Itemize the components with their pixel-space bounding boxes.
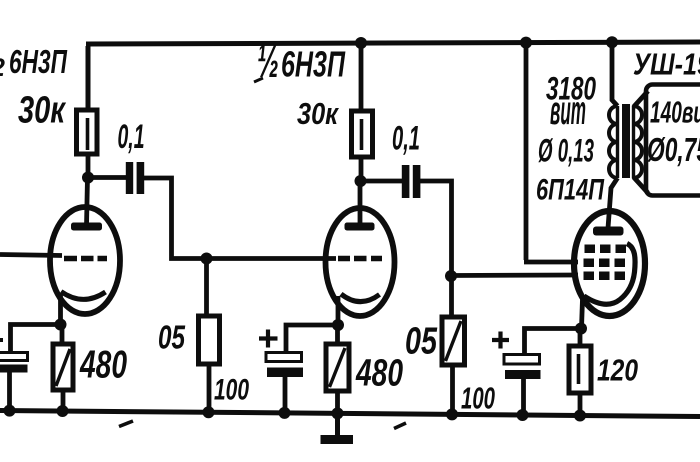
node [446,408,458,420]
label box secondary winding [646,85,700,196]
node cathode V1 [55,319,67,331]
node [332,407,344,419]
wire top B+ rail [86,42,700,44]
resistor R 05 #2 [442,317,465,365]
node junction rail / screen-grid feed [520,37,532,49]
stray tick mark 1 [119,421,133,427]
transformer T1 secondary winding [634,106,643,178]
capacitor C 0,1 #2 [402,165,410,198]
grid dots V3 row g3 [585,245,596,254]
capacitor electrolytic #1 (clipped at left edge) [0,353,28,361]
svg-text:30к: 30к [297,96,339,131]
node [517,409,529,421]
wire rail to R 30k #2 [359,44,364,112]
svg-text:УШ-19: УШ-19 [633,47,700,82]
transformer T1 primary winding [609,106,618,178]
wire cathode node to bypass cap #3 [525,329,582,356]
wire cathode node to bypass cap #1 [11,325,61,354]
grid V1 (dashes) [64,256,107,262]
resistor R 120 [569,346,591,393]
wire cap #2 to ground rail [283,377,288,413]
ground symbol [335,413,340,435]
cathode V1 [61,292,106,300]
svg-text:30к: 30к [18,90,66,132]
node control grid feed [445,270,457,282]
wire leads R480#2 [335,325,340,413]
wire anode lead V2 [358,181,363,226]
pentode V3 (6P14P) envelope [574,211,645,316]
wire node to R 05 #2 [449,276,454,317]
node plate of tube V1 [82,172,94,184]
resistor R 480 #1 [53,344,73,390]
triode V1 (1/2 6N3P) envelope [50,207,120,314]
node junction rail / transformer primary [606,36,618,48]
wire cathode node to bypass cap #2 [286,325,338,353]
transformer T1 core [622,104,630,178]
svg-text:6Н3П: 6Н3П [9,43,68,80]
wire anode lead V1 [87,177,88,226]
wire ground rail (bottom) [0,411,700,417]
node [574,410,586,422]
wire node to R 05 #1 [204,259,209,317]
grid dots V3 row g1 [584,272,595,281]
wire cathode lead V2 [336,296,341,325]
wire leads R120 [578,329,583,416]
svg-text:05: 05 [405,321,438,363]
suppressor-to-cathode curve V3 [584,244,635,305]
wire cap #3 to ground rail [521,379,526,415]
svg-text:Ø 0,13: Ø 0,13 [538,133,594,169]
resistor R 480 #2 [326,344,349,391]
svg-text:2: 2 [0,54,5,82]
grid V2 (dashes) [338,256,382,262]
wire node to C 0,1 #1 [88,175,126,180]
resistor R 30k #1 [77,110,98,154]
node on ground rail [203,406,215,418]
node cathode V2 [332,319,344,331]
svg-text:140вит: 140вит [650,95,700,130]
wire C0,1#1 to grid of V2 [144,178,336,259]
wire node to C 0,1 #2 [361,179,403,184]
svg-text:100: 100 [461,381,495,416]
wire left drop from rail to R 30k #1 [86,46,91,112]
anode V3 [593,227,624,236]
triode V2 (1/2 6N3P) envelope [326,208,395,316]
stray tick mark 2 [394,423,406,429]
node [4,405,16,417]
wire leads R480#1 [62,326,63,411]
wire screen grid feed from rail [524,44,578,262]
wire R30k#1 to plate node [86,154,91,177]
wire primary to anode V3 [608,178,618,228]
node [57,405,69,417]
capacitor C 0,1 #1 [126,162,133,194]
transformer T1 primary lead [612,44,618,106]
svg-text:6П14П: 6П14П [536,174,605,207]
svg-text:05: 05 [158,319,185,356]
node grid V2 / grid resistor [201,253,213,265]
svg-text:вит: вит [550,87,586,133]
wire secondary leads to label box [634,91,649,193]
svg-text:½: ½ [257,35,279,87]
capacitor electrolytic #3 [504,355,540,365]
wire cathode lead V3 [582,299,583,328]
wire R05#1 to ground rail [207,364,212,412]
svg-text:Ø0,75: Ø0,75 [647,131,700,168]
anode V2 [345,223,375,231]
wire cathode lead V1 [58,293,63,325]
wire node to control grid V3 [451,273,578,278]
svg-text:120: 120 [597,353,638,388]
anode V1 [71,223,102,231]
wire R05#2 to ground rail [450,365,455,414]
node [279,407,291,419]
svg-text:480: 480 [79,344,127,387]
svg-text:480: 480 [355,353,403,395]
stray tick below 1/2 [254,78,263,82]
node cathode V3 [575,323,587,335]
capacitor electrolytic #2 [266,353,302,362]
node junction rail / stage2 plate feed [355,37,367,49]
resistor R 30k #2 [352,111,373,157]
wire R30k#2 to plate node V2 [359,157,364,181]
svg-text:100: 100 [214,374,249,407]
wire input to grid V1 [0,255,62,256]
node plate V2 [355,175,367,187]
wire cap #1 to ground rail [7,373,12,412]
grid dots V3 row g2 [584,259,595,268]
svg-text:0,1: 0,1 [392,120,420,158]
cathode V2 [341,294,380,302]
svg-text:6Н3П: 6Н3П [281,44,346,85]
wire C0,1#2 to grid node of V3 [420,181,452,276]
resistor R 05 #1 [199,316,220,364]
svg-text:0,1: 0,1 [118,118,145,156]
